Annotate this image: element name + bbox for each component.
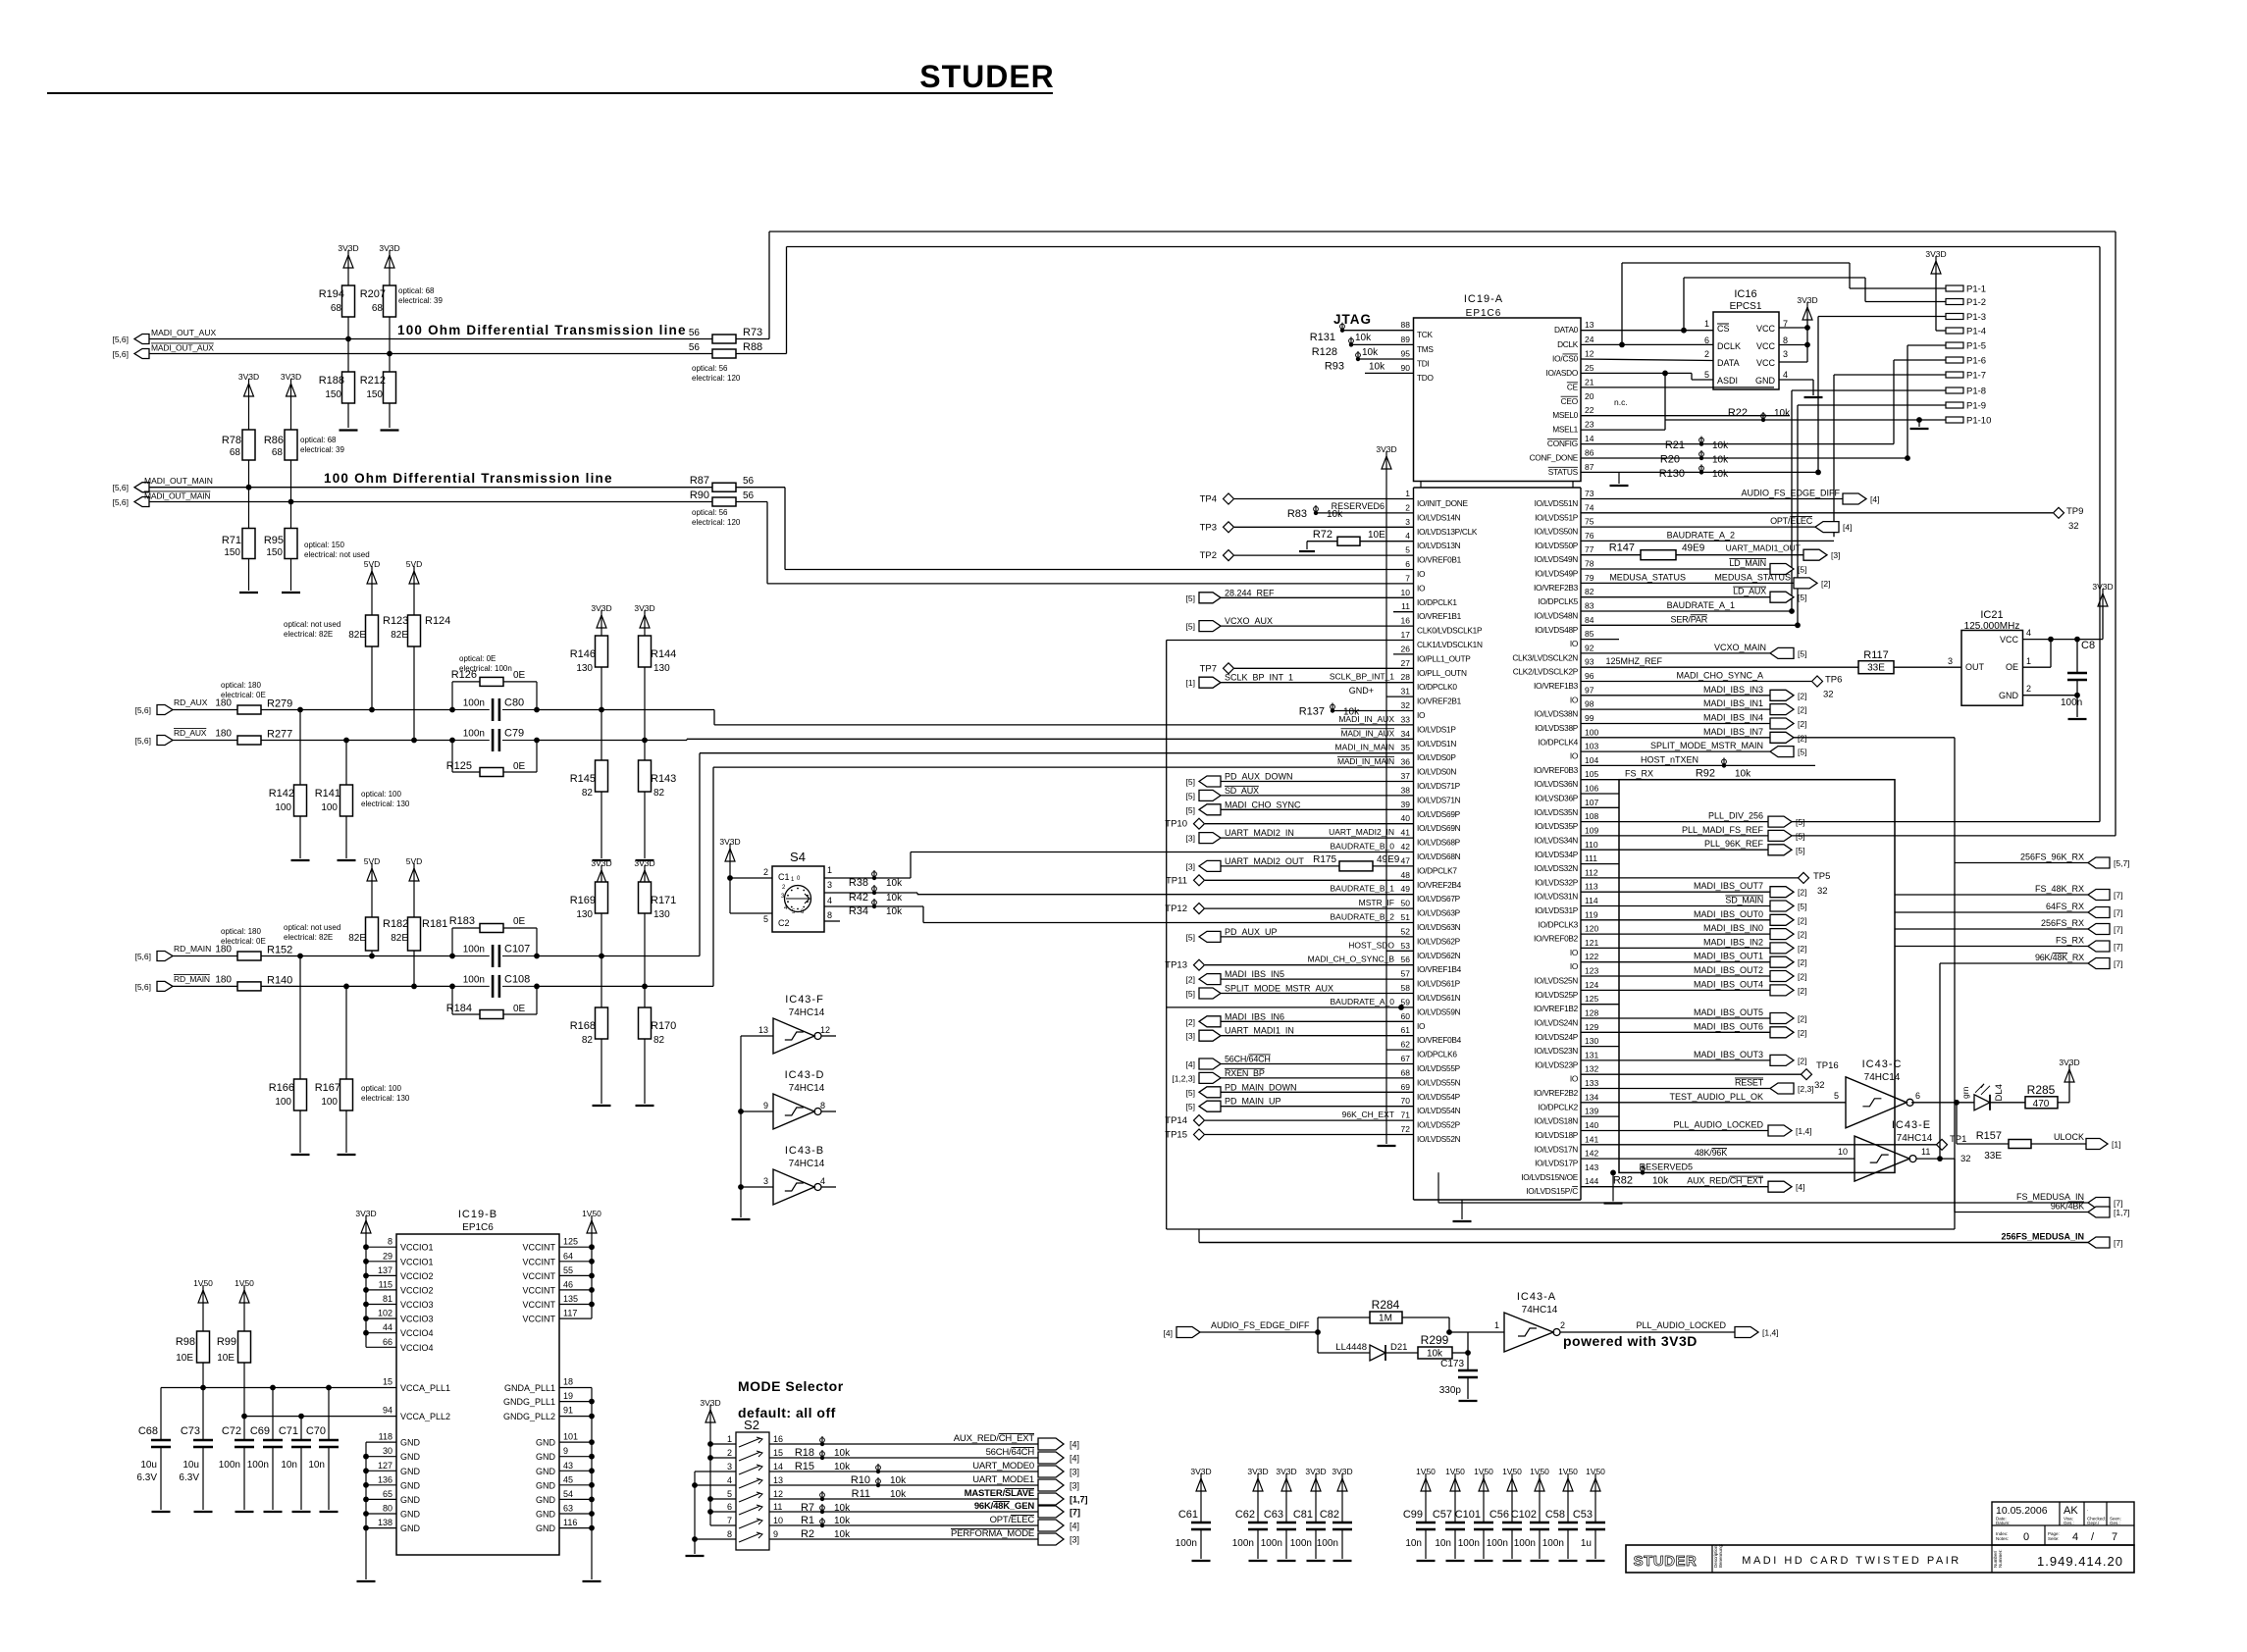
svg-text:10k: 10k [1712, 440, 1729, 451]
svg-text:electrical: 0E: electrical: 0E [221, 691, 266, 699]
svg-text:VCCIO4: VCCIO4 [400, 1343, 434, 1353]
svg-text:VCC: VCC [1756, 324, 1776, 334]
svg-text:MADI_IN_AUX: MADI_IN_AUX [1341, 728, 1395, 738]
svg-text:125: 125 [1585, 994, 1598, 1004]
svg-text:R98: R98 [176, 1336, 195, 1348]
svg-text:100: 100 [275, 1097, 291, 1108]
svg-text:GND: GND [536, 1510, 556, 1520]
svg-text:C82: C82 [1320, 1509, 1339, 1521]
svg-text:MADI_IBS_OUT7: MADI_IBS_OUT7 [1694, 881, 1763, 891]
svg-text:1: 1 [1704, 319, 1709, 329]
svg-text:IO/LVDS38P: IO/LVDS38P [1535, 723, 1579, 733]
svg-text:IO/VREF0B3: IO/VREF0B3 [1534, 765, 1579, 775]
svg-text:[2]: [2] [1798, 719, 1806, 729]
svg-text:IO/LVDS55N: IO/LVDS55N [1417, 1077, 1461, 1087]
svg-text:R175: R175 [1313, 854, 1336, 865]
svg-text:IC43-A: IC43-A [1517, 1291, 1556, 1303]
svg-text:GNDG_PLL1: GNDG_PLL1 [503, 1397, 555, 1407]
svg-text:optical: 100: optical: 100 [361, 790, 401, 799]
svg-text:Seite:: Seite: [2048, 1536, 2060, 1541]
svg-text:14: 14 [1585, 434, 1594, 443]
svg-text:100n: 100n [463, 945, 485, 955]
svg-text:15: 15 [773, 1448, 783, 1458]
svg-text:100n: 100n [463, 698, 485, 709]
svg-text:IO/LVDS36N: IO/LVDS36N [1535, 779, 1579, 789]
svg-text:DCLK: DCLK [1717, 341, 1741, 351]
svg-text:1V50: 1V50 [1416, 1467, 1436, 1476]
svg-text:Notes:: Notes: [1996, 1536, 2009, 1541]
svg-text:32: 32 [1960, 1154, 1971, 1164]
svg-text:P1-10: P1-10 [1966, 416, 1991, 427]
svg-text:IO/LVDS18N: IO/LVDS18N [1535, 1116, 1579, 1126]
svg-text:130: 130 [576, 909, 593, 920]
svg-text:180: 180 [215, 975, 232, 986]
svg-text:3V3D: 3V3D [1276, 1467, 1296, 1476]
svg-text:102: 102 [378, 1309, 392, 1318]
svg-text:R143: R143 [651, 773, 676, 785]
svg-text:100n: 100n [1487, 1538, 1508, 1549]
svg-text:R140: R140 [267, 975, 292, 987]
svg-text:C57: C57 [1433, 1509, 1452, 1521]
svg-text:100: 100 [275, 802, 291, 813]
svg-text:R90: R90 [690, 490, 709, 501]
svg-text:IO/LVDS24N: IO/LVDS24N [1535, 1018, 1579, 1028]
svg-text:DL4: DL4 [1994, 1084, 2005, 1101]
svg-text:[3]: [3] [1186, 1031, 1195, 1041]
svg-text:TP7: TP7 [1200, 663, 1217, 674]
svg-text:42: 42 [1401, 842, 1411, 852]
svg-text:[2]: [2] [1821, 579, 1830, 589]
svg-text:136: 136 [378, 1474, 392, 1484]
svg-text:74: 74 [1585, 502, 1594, 512]
svg-text:1M: 1M [1379, 1314, 1392, 1324]
svg-text:3V3D: 3V3D [379, 243, 399, 253]
svg-text:100n: 100n [1290, 1538, 1312, 1549]
svg-text:FS_MEDUSA_IN: FS_MEDUSA_IN [2016, 1192, 2084, 1202]
svg-text:2: 2 [727, 1448, 732, 1458]
svg-text:93: 93 [1585, 657, 1594, 667]
svg-text:CLK1/LVDSCLK1N: CLK1/LVDSCLK1N [1417, 640, 1483, 649]
svg-text:S2: S2 [744, 1418, 759, 1432]
svg-text:optical: 180: optical: 180 [221, 681, 261, 690]
svg-text:IO/LVDS23P: IO/LVDS23P [1535, 1059, 1579, 1069]
svg-text:MADI_CHO_SYNC_A: MADI_CHO_SYNC_A [1676, 671, 1763, 681]
svg-text:56: 56 [743, 476, 755, 487]
svg-text:IO/LVDS13N: IO/LVDS13N [1417, 541, 1461, 550]
svg-text:95: 95 [1401, 349, 1411, 359]
svg-text:IO/VREF2B1: IO/VREF2B1 [1417, 697, 1462, 706]
svg-text:[1]: [1] [1186, 678, 1195, 688]
svg-text:D21: D21 [1390, 1342, 1407, 1353]
svg-text:IO/LVDS48P: IO/LVDS48P [1535, 625, 1579, 635]
svg-text:97: 97 [1585, 685, 1594, 695]
svg-text:10k: 10k [1652, 1175, 1669, 1186]
svg-text:10k: 10k [1712, 455, 1729, 466]
svg-text:[1,2,3]: [1,2,3] [1172, 1073, 1195, 1083]
svg-text:[5,6]: [5,6] [134, 736, 151, 746]
svg-text:MADI_IBS_OUT1: MADI_IBS_OUT1 [1694, 952, 1763, 961]
svg-text:2: 2 [1405, 502, 1410, 512]
svg-text:13: 13 [758, 1025, 768, 1035]
svg-text:TP14: TP14 [1165, 1115, 1187, 1126]
svg-text:IO/INIT_DONE: IO/INIT_DONE [1417, 498, 1468, 508]
svg-text:[5,6]: [5,6] [112, 349, 129, 359]
svg-text:P1-2: P1-2 [1966, 297, 1986, 308]
svg-text:43: 43 [563, 1461, 573, 1471]
svg-text:R38: R38 [849, 877, 868, 889]
svg-text:38: 38 [1401, 785, 1411, 795]
svg-text:56: 56 [689, 328, 701, 338]
svg-text:180: 180 [215, 945, 232, 955]
svg-text:electrical: 120: electrical: 120 [692, 518, 741, 527]
svg-text:1V50: 1V50 [193, 1278, 213, 1288]
svg-text:10: 10 [1401, 588, 1411, 597]
svg-text:[5,6]: [5,6] [134, 705, 151, 715]
svg-text:[4]: [4] [1796, 1182, 1804, 1192]
svg-text:P1-3: P1-3 [1966, 312, 1986, 323]
svg-text:C71: C71 [279, 1425, 298, 1437]
svg-text:100n: 100n [1514, 1538, 1536, 1549]
svg-text:23: 23 [1585, 420, 1594, 430]
svg-text:31: 31 [1401, 687, 1411, 697]
svg-text:100n: 100n [463, 729, 485, 740]
svg-text:[2]: [2] [1798, 1014, 1806, 1024]
svg-text:4: 4 [827, 896, 832, 905]
svg-text:GNDG_PLL2: GNDG_PLL2 [503, 1412, 555, 1421]
svg-text:[7]: [7] [2114, 942, 2122, 952]
svg-text:100 Ohm Differential Transmiss: 100 Ohm Differential Transmission line [397, 323, 687, 337]
svg-text:13: 13 [1585, 320, 1594, 330]
svg-text:VCCINT: VCCINT [523, 1285, 556, 1295]
svg-text:C8: C8 [2081, 640, 2095, 651]
svg-text:IO/LVDS68N: IO/LVDS68N [1417, 852, 1461, 861]
svg-text:[3]: [3] [1070, 1535, 1079, 1545]
svg-text:76: 76 [1585, 531, 1594, 541]
svg-text:100n: 100n [247, 1460, 269, 1471]
svg-text:16: 16 [1401, 616, 1411, 626]
svg-text:[5]: [5] [1798, 748, 1806, 757]
svg-text:SCLK_BP_INT_1: SCLK_BP_INT_1 [1225, 673, 1293, 683]
svg-text:150: 150 [266, 547, 283, 558]
svg-text:[7]: [7] [2114, 925, 2122, 935]
svg-text:R146: R146 [570, 648, 596, 660]
svg-text:36: 36 [1401, 757, 1411, 767]
svg-text:3: 3 [1948, 656, 1953, 666]
svg-text:12: 12 [773, 1489, 783, 1499]
svg-text:powered with 3V3D: powered with 3V3D [1563, 1333, 1698, 1349]
svg-text:4: 4 [727, 1475, 732, 1485]
svg-text:4: 4 [2026, 628, 2031, 638]
svg-text:0E: 0E [513, 1004, 526, 1014]
svg-text:123: 123 [1585, 966, 1598, 976]
svg-text:115: 115 [379, 1279, 392, 1289]
svg-text:[4]: [4] [1070, 1522, 1079, 1531]
svg-text:GND+: GND+ [1349, 686, 1374, 696]
svg-text:[4]: [4] [1186, 1059, 1195, 1069]
svg-text:PERFORMA_MODE: PERFORMA_MODE [951, 1528, 1034, 1539]
svg-text:73: 73 [1585, 489, 1594, 498]
svg-text:C173: C173 [1440, 1359, 1464, 1369]
svg-text:3V3D: 3V3D [591, 603, 611, 613]
svg-text:C1: C1 [778, 872, 790, 882]
svg-text:GND: GND [536, 1480, 556, 1490]
svg-text:66: 66 [383, 1337, 392, 1347]
svg-text:5: 5 [1834, 1091, 1839, 1101]
svg-text:104: 104 [1585, 755, 1598, 765]
svg-text:4: 4 [1783, 370, 1788, 380]
svg-text:IO/VREF1B1: IO/VREF1B1 [1417, 611, 1462, 621]
svg-text:125MHZ_REF: 125MHZ_REF [1605, 656, 1662, 666]
svg-text:R171: R171 [651, 895, 676, 906]
svg-text:PD_MAIN_DOWN: PD_MAIN_DOWN [1225, 1082, 1297, 1092]
svg-text:electrical: 100n: electrical: 100n [459, 664, 512, 673]
svg-text:[3]: [3] [1186, 861, 1195, 871]
svg-text:GND: GND [400, 1495, 421, 1505]
svg-text:IO/LVDS54N: IO/LVDS54N [1417, 1106, 1461, 1115]
svg-text:125: 125 [563, 1237, 578, 1247]
svg-text:256FS_RX: 256FS_RX [2041, 918, 2084, 928]
svg-text:IO: IO [1570, 961, 1579, 971]
svg-text:C53: C53 [1573, 1509, 1593, 1521]
svg-text:R279: R279 [267, 698, 292, 710]
svg-text:BAUDRATE_A_2: BAUDRATE_A_2 [1667, 530, 1735, 540]
svg-text:DCLK: DCLK [1557, 339, 1579, 349]
svg-text:82: 82 [582, 1035, 594, 1046]
svg-text:R88: R88 [743, 341, 762, 353]
svg-text:131: 131 [1585, 1050, 1598, 1059]
svg-text:MADI_IBS_IN4: MADI_IBS_IN4 [1703, 713, 1763, 723]
svg-text:LL4448: LL4448 [1335, 1342, 1367, 1353]
svg-text:RESET: RESET [1735, 1078, 1764, 1088]
svg-text:IO: IO [1417, 1021, 1426, 1031]
svg-text:5VD: 5VD [364, 856, 381, 866]
svg-text:R181: R181 [422, 918, 447, 930]
svg-text:OE: OE [2006, 662, 2018, 672]
svg-text:[2]: [2] [1798, 1056, 1806, 1065]
svg-text:IO/LVDS68P: IO/LVDS68P [1417, 838, 1461, 848]
svg-text:BAUDRATE_A_1: BAUDRATE_A_1 [1667, 600, 1735, 610]
svg-text:[2]: [2] [1798, 915, 1806, 925]
svg-text:[1]: [1] [2112, 1140, 2120, 1150]
svg-text:3V3D: 3V3D [1332, 1467, 1352, 1476]
svg-text:19: 19 [563, 1391, 573, 1401]
svg-text:141: 141 [1585, 1134, 1598, 1144]
svg-text:Gepr./: Gepr./ [2087, 1521, 2100, 1525]
svg-text:UART_MADI1_OUT: UART_MADI1_OUT [1726, 543, 1801, 553]
svg-text:STATUS: STATUS [1548, 467, 1579, 477]
svg-text:AUX_RED/CH_EXT: AUX_RED/CH_EXT [954, 1433, 1035, 1444]
svg-text:IO: IO [1417, 569, 1426, 579]
svg-text:PLL_96K_REF: PLL_96K_REF [1704, 839, 1764, 849]
svg-text:133: 133 [1585, 1078, 1598, 1088]
svg-text:IO/LVDS59N: IO/LVDS59N [1417, 1007, 1461, 1016]
svg-text:R1: R1 [801, 1515, 814, 1526]
svg-text:MASTER/SLAVE: MASTER/SLAVE [965, 1488, 1034, 1499]
svg-text:IO/LVDS17P: IO/LVDS17P [1535, 1159, 1579, 1168]
svg-text:68: 68 [331, 303, 342, 314]
svg-text:39: 39 [1401, 800, 1411, 809]
svg-text:46: 46 [563, 1279, 573, 1289]
svg-text:VCCINT: VCCINT [523, 1257, 556, 1266]
svg-text:[4]: [4] [1164, 1328, 1173, 1338]
svg-text:R147: R147 [1609, 542, 1635, 554]
svg-text:R166: R166 [269, 1082, 294, 1094]
svg-text:IC43-B: IC43-B [785, 1145, 824, 1157]
svg-text:IO: IO [1570, 751, 1579, 761]
svg-text:R277: R277 [267, 729, 292, 741]
svg-text:[2]: [2] [1798, 986, 1806, 996]
svg-text:100: 100 [321, 1097, 338, 1108]
svg-text:R10: R10 [851, 1474, 870, 1486]
svg-text:IO/LVDS0N: IO/LVDS0N [1417, 767, 1456, 777]
svg-text:[2]: [2] [1798, 888, 1806, 898]
svg-text:MADI_IN_AUX: MADI_IN_AUX [1338, 714, 1394, 724]
svg-text:IO: IO [1570, 948, 1579, 957]
svg-text:3V3D: 3V3D [1925, 249, 1946, 259]
svg-text:IO/PLL1_OUTP: IO/PLL1_OUTP [1417, 653, 1471, 663]
svg-text:IC19-B: IC19-B [458, 1209, 497, 1220]
svg-text:ASDI: ASDI [1717, 376, 1738, 386]
svg-text:10u: 10u [183, 1460, 199, 1471]
svg-text:180: 180 [215, 698, 232, 709]
svg-text:SPLIT_MODE_MSTR_AUX: SPLIT_MODE_MSTR_AUX [1225, 984, 1333, 994]
svg-text:32: 32 [1817, 886, 1828, 897]
svg-text:10: 10 [773, 1516, 783, 1525]
svg-text:R83: R83 [1287, 508, 1307, 520]
svg-text:[5]: [5] [1186, 805, 1195, 815]
svg-text:C99: C99 [1403, 1509, 1423, 1521]
svg-text:MEDUSA_STATUS: MEDUSA_STATUS [1609, 572, 1686, 582]
svg-text:7: 7 [1405, 573, 1410, 583]
svg-text:R123: R123 [383, 615, 408, 627]
svg-text:6: 6 [1405, 559, 1410, 569]
svg-text:100n: 100n [2061, 697, 2082, 708]
svg-text:2: 2 [1704, 349, 1709, 359]
svg-text:MSEL1: MSEL1 [1552, 425, 1578, 435]
svg-text:TDI: TDI [1417, 359, 1429, 369]
svg-text:3: 3 [827, 880, 832, 890]
svg-text:[7]: [7] [2114, 1199, 2122, 1209]
svg-text:5: 5 [763, 914, 768, 924]
svg-text:48: 48 [1401, 870, 1411, 880]
svg-text:[2]: [2] [1798, 705, 1806, 715]
svg-text:82E: 82E [391, 933, 408, 944]
svg-text:78: 78 [1585, 559, 1594, 569]
svg-text:IO/LVDS35P: IO/LVDS35P [1535, 821, 1579, 831]
svg-text:28: 28 [1401, 672, 1411, 682]
svg-text:3V3D: 3V3D [591, 858, 611, 868]
svg-text:83: 83 [1585, 601, 1594, 611]
svg-text:180: 180 [215, 729, 232, 740]
svg-text:96K/4BK: 96K/4BK [2051, 1202, 2084, 1212]
svg-text:GND: GND [1755, 376, 1776, 386]
svg-text:140: 140 [1585, 1120, 1598, 1130]
svg-text:TP12: TP12 [1165, 903, 1187, 914]
svg-text:74HC14: 74HC14 [789, 1159, 825, 1169]
svg-text:C63: C63 [1264, 1509, 1283, 1521]
svg-text:10k: 10k [1355, 333, 1372, 343]
svg-text:CS: CS [1717, 324, 1730, 334]
svg-text:3V3D: 3V3D [1190, 1467, 1211, 1476]
svg-text:AK: AK [2064, 1505, 2078, 1517]
svg-text:optical: 68: optical: 68 [300, 436, 337, 444]
svg-text:MSEL0: MSEL0 [1552, 410, 1578, 420]
svg-text:135: 135 [563, 1294, 578, 1304]
svg-text:3V3D: 3V3D [1797, 295, 1817, 305]
svg-text:optical: 56: optical: 56 [692, 364, 728, 373]
svg-text:R194: R194 [319, 288, 344, 300]
svg-text:R21: R21 [1665, 439, 1685, 451]
svg-text:RD_AUX: RD_AUX [174, 728, 207, 738]
svg-text:R78: R78 [222, 435, 241, 446]
svg-text:RD_MAIN: RD_MAIN [174, 974, 210, 984]
svg-text:256FS_MEDUSA_IN: 256FS_MEDUSA_IN [2001, 1232, 2084, 1242]
svg-text:5: 5 [727, 1489, 732, 1499]
svg-text:32: 32 [2068, 521, 2079, 532]
svg-text:R42: R42 [849, 892, 868, 903]
svg-text:R11: R11 [852, 1488, 870, 1500]
svg-text:96K/48K_RX: 96K/48K_RX [2035, 953, 2084, 962]
svg-text:[2]: [2] [1798, 957, 1806, 967]
svg-text:R137: R137 [1299, 706, 1325, 718]
svg-text:R182: R182 [383, 918, 408, 930]
svg-text:82: 82 [582, 788, 594, 799]
svg-text:IO/LVDS18P: IO/LVDS18P [1535, 1130, 1579, 1140]
svg-text:1V50: 1V50 [235, 1278, 254, 1288]
svg-text:IO: IO [1570, 695, 1579, 704]
svg-text:105: 105 [1585, 769, 1598, 779]
svg-text:IC43-D: IC43-D [785, 1069, 825, 1081]
svg-text:[5]: [5] [1798, 565, 1806, 575]
svg-text:MADI_IBS_IN2: MADI_IBS_IN2 [1703, 937, 1763, 947]
svg-text:IO: IO [1417, 583, 1426, 593]
svg-text:P1-4: P1-4 [1966, 327, 1986, 337]
svg-text:470: 470 [2033, 1099, 2050, 1110]
svg-text:UART_MADI2_IN: UART_MADI2_IN [1225, 828, 1294, 838]
svg-text:[2]: [2] [1186, 1017, 1195, 1027]
svg-text:7: 7 [2112, 1531, 2117, 1543]
svg-text:68: 68 [272, 447, 284, 458]
svg-text:IO/LVDS52P: IO/LVDS52P [1417, 1120, 1461, 1130]
svg-text:C58: C58 [1545, 1509, 1565, 1521]
svg-text:[7]: [7] [2114, 908, 2122, 918]
svg-text:1u: 1u [1581, 1538, 1592, 1549]
svg-text:optical: 68: optical: 68 [398, 286, 435, 295]
svg-text:IO/LVDS17N: IO/LVDS17N [1535, 1144, 1579, 1154]
svg-text:3V3D: 3V3D [338, 243, 358, 253]
svg-text:UART_MADI2_OUT: UART_MADI2_OUT [1225, 856, 1304, 866]
svg-text:IC16: IC16 [1734, 288, 1756, 300]
svg-text:R99: R99 [217, 1336, 236, 1348]
svg-text:0E: 0E [513, 761, 526, 772]
svg-text:100n: 100n [1176, 1538, 1197, 1549]
svg-text:10k: 10k [1327, 509, 1343, 520]
svg-text:96K_CH_EXT: 96K_CH_EXT [1342, 1110, 1394, 1119]
svg-text:C70: C70 [306, 1425, 326, 1437]
svg-text:TDO: TDO [1417, 373, 1434, 383]
svg-text:103: 103 [1585, 742, 1598, 751]
svg-text:MADI_CH_O_SYNC_B: MADI_CH_O_SYNC_B [1308, 955, 1395, 964]
svg-text:50: 50 [1401, 899, 1411, 908]
svg-text:Nummer:: Nummer: [1998, 1549, 2003, 1568]
svg-text:OUT: OUT [1965, 662, 1985, 672]
svg-text:VCCINT: VCCINT [523, 1300, 556, 1310]
svg-text:VCCINT: VCCINT [523, 1271, 556, 1281]
svg-text:130: 130 [653, 909, 670, 920]
svg-text:116: 116 [563, 1518, 577, 1527]
svg-text:R93: R93 [1325, 361, 1344, 373]
svg-text:[2]: [2] [1798, 691, 1806, 700]
